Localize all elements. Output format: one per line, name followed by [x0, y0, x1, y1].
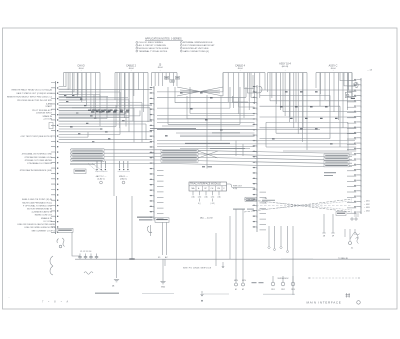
svg-text:(2A): (2A) — [204, 196, 208, 199]
svg-text:TO FAN 4B: TO FAN 4B — [338, 257, 348, 260]
svg-text:(2A): (2A) — [198, 196, 202, 199]
svg-text:JOG/RUN INPUT: JOG/RUN INPUT — [36, 113, 53, 115]
svg-text:↓: ↓ — [130, 69, 131, 72]
svg-text:( 4W): ( 4W) — [210, 203, 215, 205]
inline components under J3 — [164, 77, 168, 80]
power rail segments (y=294) — [95, 292, 119, 294]
svg-text:(2A): (2A) — [211, 196, 215, 199]
svg-text:+24 COM: +24 COM — [43, 119, 52, 121]
svg-text:→ 4B1: → 4B1 — [364, 201, 371, 203]
tie labels left of MOVs — [252, 282, 257, 283]
svg-text:(4 AU 1): (4 AU 1) — [120, 178, 127, 181]
edge connector strip P2 (mid-left, x=154) — [153, 86, 155, 221]
svg-text:4 RC TEST POINT (SEE NOTE 3: 4 RC TEST POINT (SEE NOTE 3) — [20, 136, 52, 138]
connector J1 (CH I/O) header + drop wires — [64, 65, 101, 127]
svg-text:SEE PS CHAS SERVICE: SEE PS CHAS SERVICE — [183, 266, 212, 269]
arrow down center-bottom — [201, 291, 204, 296]
svg-text:GATE CONNECTIONS [4]: GATE CONNECTIONS [4] — [183, 50, 209, 53]
notes under right bus stack — [324, 172, 336, 173]
P4 right-side stub labels — [354, 201, 371, 217]
svg-text:↓: ↓ — [284, 69, 285, 72]
svg-text:→ 4B2: → 4B2 — [364, 204, 371, 206]
svg-text:INTERNAL WIRING/MODULE: INTERNAL WIRING/MODULE — [183, 41, 213, 44]
svg-text:DC COM: DC COM — [44, 221, 53, 223]
connector J2 header + drop wires — [115, 65, 148, 129]
svg-text:→ 4C: → 4C — [262, 203, 268, 205]
svg-text:MAIN INTERFACE: MAIN INTERFACE — [307, 301, 342, 305]
svg-text:REMOTE FAULT RELAY (N.O.) OUT: REMOTE FAULT RELAY (N.O.) OUT A1-A2 — [12, 89, 53, 92]
inductor squiggle under caps — [84, 272, 93, 275]
svg-text:J/TB2 AN REF SIGNAL 0-10V: J/TB2 AN REF SIGNAL 0-10V — [24, 156, 52, 159]
svg-text:MOTOR THERMOSTAT IN: MOTOR THERMOSTAT IN — [27, 208, 52, 211]
connector J5 (ASSY) header + drop wires — [268, 63, 308, 151]
svg-text:E1: E1 — [235, 289, 237, 291]
wire-number tick labels (right/middle) — [285, 91, 288, 92]
cluster top-right-bottom area — [345, 229, 355, 241]
bus label boxes (right stack) — [324, 154, 349, 157]
P3 right-side stub labels — [262, 198, 275, 205]
svg-text:C1 C2 C3 C4: C1 C2 C3 C4 — [80, 251, 91, 253]
P4 end terminator — [351, 218, 353, 220]
drops from mid cluster — [164, 259, 166, 266]
power rail (y=259) — [75, 258, 390, 260]
connector J6 header + drop wires — [316, 65, 352, 129]
legend / application notes block — [136, 38, 215, 53]
test point box under left bus stack — [74, 169, 86, 174]
svg-text:(A-1-B): (A-1-B) — [282, 65, 289, 68]
wires: mesh between P2 and P3 — [157, 91, 223, 93]
svg-text:J/TB4 ANALOG COMMON: J/TB4 ANALOG COMMON — [27, 162, 52, 165]
svg-text:J8-04: J8-04 — [157, 67, 163, 69]
svg-text:—: — — [8, 297, 10, 299]
svg-text:RV2: RV2 — [281, 289, 284, 291]
wires: mesh between P3 and P4 — [260, 89, 357, 91]
svg-text:E2: E2 — [242, 289, 244, 291]
svg-text:SURGE MOV: SURGE MOV — [278, 278, 290, 280]
svg-text:START: START — [45, 105, 52, 108]
dark segment of lower rail — [95, 292, 119, 294]
svg-text:MODULE SELECTION GUIDE: MODULE SELECTION GUIDE — [139, 48, 169, 50]
svg-text:SEE CURRENT LOOP ⊙: SEE CURRENT LOOP ⊙ — [32, 229, 56, 232]
connector J4 header + drop wires — [223, 65, 265, 119]
svg-text:4-20MA ISOLATED IN: 4-20MA ISOLATED IN — [31, 211, 52, 214]
lower-left note labels — [17, 223, 56, 232]
svg-text:PILOT RUN SELECT: PILOT RUN SELECT — [32, 110, 52, 112]
bus label boxes (middle stack) — [161, 149, 198, 152]
svg-text:GND: GND — [161, 287, 166, 289]
svg-text:→ 4B3: → 4B3 — [364, 207, 371, 209]
svg-text:RV1: RV1 — [271, 289, 274, 291]
drop + earth at x=163 — [162, 259, 164, 281]
spare wire loops right of J6 — [349, 73, 359, 90]
edge connector strip P3 (mid-right, x=257) — [256, 85, 258, 232]
capacitor bank C1-C4 — [79, 254, 81, 257]
drop to rail at x=132 — [131, 196, 133, 259]
wires: left mesh between P1 and P2 — [59, 73, 66, 87]
wire table to P3 — [232, 187, 255, 189]
spare wire loop near J4 — [253, 75, 262, 93]
criss-cross wire bundle (bottom right) — [244, 199, 352, 212]
svg-text:LINE OFF DELAY B 4 AS NOTED HE: LINE OFF DELAY B 4 AS NOTED HERE — [17, 223, 55, 226]
svg-text:↓: ↓ — [332, 69, 333, 72]
MOV surge suppressors — [272, 276, 274, 282]
svg-text:(2A): (2A) — [191, 196, 195, 199]
svg-text:F OPTIONAL TO SHIELD GND: F OPTIONAL TO SHIELD GND — [23, 204, 52, 207]
svg-text:APPLICATION NOTES: J-SERIES: APPLICATION NOTES: J-SERIES — [145, 38, 182, 41]
bus label boxes (left stack) — [71, 149, 104, 152]
svg-text:TRIAC INTERFACE MODULE: TRIAC INTERFACE MODULE — [190, 183, 221, 186]
left pin-name label column — [7, 89, 53, 223]
relay K1 cluster — [155, 218, 169, 223]
terminal jacks with labels — [96, 161, 98, 168]
svg-text:LINE OFF WIRE GUIDE NOTE 5: LINE OFF WIRE GUIDE NOTE 5 — [24, 227, 55, 229]
svg-text:MOUNTED AT UNIT SIDE: MOUNTED AT UNIT SIDE — [183, 47, 209, 50]
connector J3 header + drop wires — [152, 64, 178, 87]
svg-text:RV3: RV3 — [291, 289, 294, 291]
svg-text:→ 4B4: → 4B4 — [364, 210, 371, 212]
svg-text:↓: ↓ — [239, 69, 240, 72]
svg-text:4B( ) — 4( ) B2: 4B( ) — 4( ) B2 — [200, 218, 213, 220]
boxed label left of P3 bottom — [245, 197, 257, 201]
drops + symbols x=236/243 — [235, 209, 237, 283]
svg-text:TACH/COAX FEEDBACK IN (C): TACH/COAX FEEDBACK IN (C) — [22, 201, 52, 204]
svg-text:CH & I/O FIELD WIRING: CH & I/O FIELD WIRING — [139, 42, 164, 44]
svg-text:B( ): B( ) — [198, 203, 201, 205]
dashed tie line — [309, 277, 359, 279]
edge connector strip P1 (left, x=56) — [55, 81, 57, 234]
drops with diamond terminals (bottom right set) — [268, 226, 270, 246]
svg-text:4 (B): 4 (B) — [233, 188, 237, 190]
svg-text:(2A): (2A) — [217, 196, 221, 199]
analog bus bundle wires — [70, 150, 352, 153]
wire-number tick labels (left) — [92, 110, 95, 111]
svg-text:24V POWER REGULATOR SET: 24V POWER REGULATOR SET — [183, 44, 215, 47]
bracket / brace lower-left — [50, 256, 53, 275]
squiggle wire bottom-right — [350, 232, 360, 239]
svg-text:J/TB5 RAW IN REFERENCE (10K): J/TB5 RAW IN REFERENCE (10K) — [20, 169, 53, 172]
wire crossover X (top middle) — [177, 87, 223, 96]
wire from note box down to caps — [72, 232, 80, 256]
drop + ground at x=115 — [116, 196, 118, 278]
svg-text:FAULT STATUS OUT (COM) B1 HIGH: FAULT STATUS OUT (COM) B1 HIGH — [17, 92, 53, 95]
svg-text:PROCESS SELECTOR IN LOW SPD: PROCESS SELECTOR IN LOW SPD — [17, 100, 52, 102]
small ref box (bottom of criss-cross) — [336, 212, 346, 216]
svg-text:ALL 3 CIRCUIT COMMONS: ALL 3 CIRCUIT COMMONS — [139, 44, 167, 47]
svg-text:TERMINAL TYPICAL NOTES: TERMINAL TYPICAL NOTES — [139, 50, 168, 53]
svg-text:CM: CM — [217, 188, 220, 190]
svg-text:J/TB3 AN OUT FDBK METER: J/TB3 AN OUT FDBK METER — [24, 159, 52, 162]
svg-text:(4 AU 1): (4 AU 1) — [98, 178, 105, 181]
svg-text:SHIELD GND TIE POINT (J6) IN: SHIELD GND TIE POINT (J6) IN — [22, 199, 53, 201]
edge connector strip P4 (right, x=361) — [360, 78, 362, 214]
label left of criss-cross — [233, 209, 245, 210]
svg-text:↓: ↓ — [159, 69, 160, 72]
TRIAC interface module table — [189, 182, 243, 205]
svg-text:ENABLE IN: ENABLE IN — [41, 217, 52, 220]
svg-text:REMOTE RUN SELECT INPUT FWD 24: REMOTE RUN SELECT INPUT FWD 24VDC C1 — [7, 96, 53, 98]
drops below P4 (x=324, 333) — [323, 214, 325, 233]
svg-text:RATED COM OUT: RATED COM OUT — [35, 214, 53, 217]
svg-text:↓: ↓ — [80, 69, 81, 72]
svg-text:→ 4B: → 4B — [262, 198, 268, 200]
svg-text:J/TB1 ANALOG IN SHIELD GND: J/TB1 ANALOG IN SHIELD GND — [22, 153, 53, 156]
svg-text:7 • 8 • A: 7 • 8 • A — [42, 300, 70, 303]
svg-text:— 4A: — 4A — [367, 69, 373, 72]
